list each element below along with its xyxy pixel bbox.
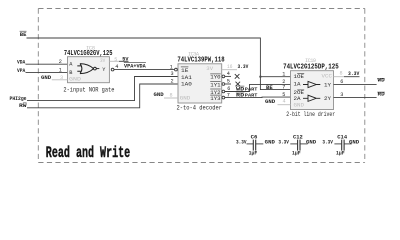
wire WDPART from IC3A 1Y2 to IC19 pin 1A	[225, 84, 291, 92]
wire BE net: top run, drop at x=260.4, to IC19 pin7 2OE, branch to pin1 1OE	[27, 38, 291, 90]
svg-text:GND: GND	[294, 103, 305, 109]
svg-text:1: 1	[282, 71, 285, 77]
svg-text:8: 8	[170, 92, 173, 98]
pin 1 of IC3A (1E) with bubble	[170, 64, 177, 71]
frame dashed border	[38, 9, 365, 163]
wire VPA+VDA from IC8 Y to IC3A pin 1E	[114, 63, 174, 70]
svg-text:GND: GND	[265, 99, 275, 105]
svg-text:1A: 1A	[294, 81, 302, 87]
svg-text:2: 2	[171, 79, 174, 85]
wire VDA to IC8 pin A	[26, 63, 68, 65]
pin 8 GND of IC3A	[154, 92, 179, 98]
gate IC8 2-input NOR 74LVC1G02	[63, 45, 114, 93]
svg-text:BE: BE	[20, 32, 27, 38]
svg-text:5: 5	[282, 92, 285, 98]
svg-text:3: 3	[171, 71, 174, 77]
svg-text:3.3V: 3.3V	[236, 140, 247, 146]
svg-text:3.3V: 3.3V	[322, 140, 333, 146]
wire WD output	[334, 78, 385, 85]
svg-text:GND: GND	[41, 75, 51, 81]
svg-text:4: 4	[227, 71, 230, 77]
svg-text:2-to-4 decoder: 2-to-4 decoder	[177, 105, 223, 112]
pin 7 of IC19 with BE label	[266, 84, 286, 91]
svg-text:2: 2	[59, 59, 62, 65]
svg-text:5V: 5V	[122, 57, 129, 63]
svg-text:1OE: 1OE	[294, 74, 305, 80]
pin 4 GND of IC19	[265, 99, 291, 105]
pin 3 GND of IC8	[41, 75, 68, 81]
svg-text:VPA+VDA: VPA+VDA	[124, 63, 147, 69]
wire PHI2ge to IC3A pin 1A1	[27, 77, 178, 101]
svg-text:3V: 3V	[100, 58, 106, 64]
wire RD output	[334, 92, 385, 98]
pin 4 output 1Y0 of IC3A, no-connect	[222, 71, 239, 79]
svg-text:GND: GND	[265, 140, 275, 146]
pin 5 output 1Y1 of IC3A, no-connect	[222, 79, 240, 87]
svg-text:2OE: 2OE	[294, 90, 305, 96]
svg-text:1µF: 1µF	[336, 150, 345, 156]
svg-text:1µF: 1µF	[249, 150, 258, 156]
capacitor C12	[278, 134, 316, 156]
wire VPA to IC8 pin B	[26, 72, 68, 74]
svg-text:PHI2ge: PHI2ge	[10, 96, 27, 102]
decoder IC3A 74LVC139	[177, 52, 225, 112]
svg-text:2-bit line driver: 2-bit line driver	[286, 111, 335, 118]
pin 8 VCC of IC19 with 3.3V net	[334, 71, 361, 77]
svg-text:BE: BE	[266, 85, 273, 91]
svg-text:VDA: VDA	[17, 60, 26, 66]
svg-text:PART: PART	[245, 92, 258, 98]
svg-text:RD: RD	[378, 92, 385, 98]
wire RDPART from IC3A 1Y3 to IC19 pin 2A	[225, 92, 291, 98]
wire RW to IC3A pin 1A0	[27, 84, 178, 108]
svg-text:3.3V: 3.3V	[348, 71, 360, 77]
svg-text:2A: 2A	[294, 96, 302, 102]
svg-text:5: 5	[227, 79, 230, 85]
pin 4 output Y of IC8	[111, 64, 118, 71]
pin 16 VCC of IC3A with 3.3V net	[222, 64, 249, 70]
svg-text:1: 1	[59, 68, 62, 74]
svg-text:GND: GND	[69, 76, 81, 82]
svg-text:1A0: 1A0	[181, 82, 192, 88]
capacitor C14	[322, 134, 359, 156]
svg-text:3.3V: 3.3V	[238, 64, 249, 70]
svg-text:1: 1	[170, 64, 173, 70]
svg-text:RW: RW	[19, 103, 28, 109]
pin 6 output 1Y2 of IC3A	[222, 86, 230, 93]
svg-text:8: 8	[340, 71, 343, 77]
svg-text:C14: C14	[337, 134, 348, 140]
svg-text:3V: 3V	[206, 66, 214, 72]
svg-text:C12: C12	[293, 134, 303, 140]
svg-text:1Y3: 1Y3	[210, 96, 220, 102]
svg-text:GND: GND	[180, 95, 191, 101]
svg-text:1E: 1E	[181, 68, 188, 74]
svg-text:1A1: 1A1	[181, 75, 192, 81]
buffer IC19 2-bit line driver 74LVC2G125	[283, 58, 339, 118]
capacitor C6	[236, 134, 275, 156]
svg-text:3.3V: 3.3V	[278, 140, 289, 146]
svg-text:5: 5	[114, 57, 117, 63]
svg-text:1Y0: 1Y0	[210, 75, 220, 81]
svg-text:GND: GND	[306, 140, 316, 146]
svg-text:2-input NOR gate: 2-input NOR gate	[63, 86, 114, 93]
svg-text:B: B	[69, 70, 72, 76]
svg-text:VPA: VPA	[17, 68, 26, 74]
pin 5 VCC of IC8 with 5V net	[109, 57, 129, 64]
svg-text:Read and Write: Read and Write	[46, 144, 130, 162]
svg-text:4: 4	[283, 99, 286, 105]
pin 7 output 1Y3 of IC3A	[222, 92, 230, 99]
svg-text:1Y1: 1Y1	[210, 82, 220, 88]
node RW	[19, 103, 28, 109]
svg-text:RD: RD	[236, 92, 244, 98]
svg-text:1Y: 1Y	[324, 82, 332, 88]
svg-text:2Y: 2Y	[324, 96, 332, 102]
svg-text:GND: GND	[349, 140, 359, 146]
svg-text:GND: GND	[154, 92, 164, 98]
svg-text:C6: C6	[251, 134, 258, 140]
svg-text:3: 3	[340, 92, 343, 98]
svg-text:1µF: 1µF	[292, 150, 301, 156]
junction dot on BE vertical	[259, 76, 261, 78]
svg-text:VCC: VCC	[322, 74, 333, 80]
svg-text:PART: PART	[245, 87, 258, 93]
svg-text:7: 7	[282, 84, 285, 90]
node BE (top-left label)	[20, 31, 27, 38]
